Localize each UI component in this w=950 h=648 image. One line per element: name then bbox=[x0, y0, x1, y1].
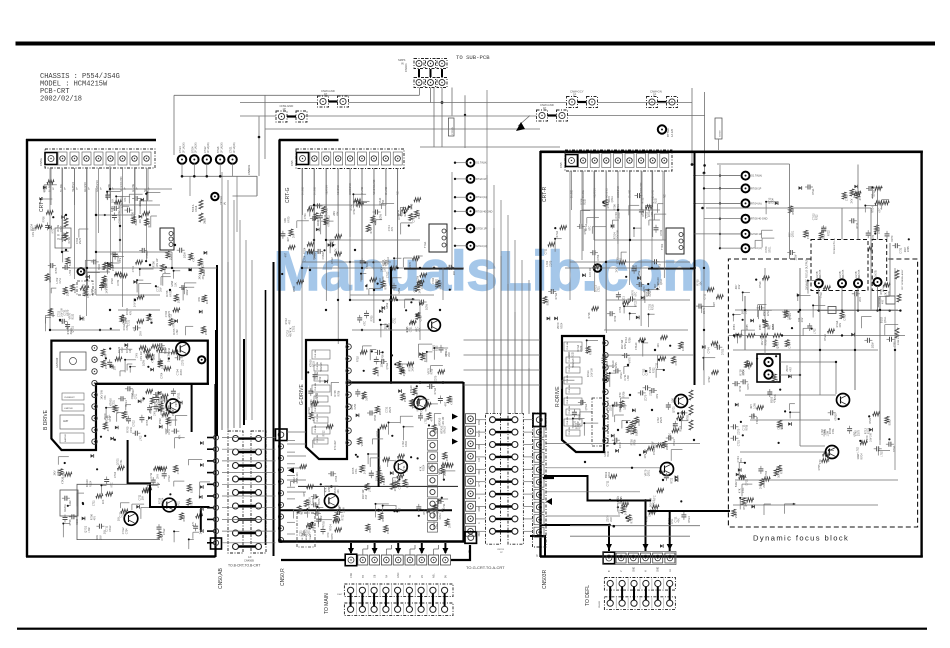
dashed box R-DRIVE sub bbox=[592, 398, 608, 446]
svg-text:C704: C704 bbox=[878, 227, 881, 234]
wire top bus y102 bbox=[240, 102, 318, 104]
wire B thick1 bbox=[96, 383, 209, 385]
svg-text:D7G1: D7G1 bbox=[125, 400, 128, 407]
svg-text:C711: C711 bbox=[646, 369, 649, 375]
block R-DRIVE outline bbox=[562, 336, 604, 452]
svg-text:1A(75): 1A(75) bbox=[875, 270, 878, 277]
svg-text:ZD70: ZD70 bbox=[666, 443, 669, 450]
svg-text:1/2W: 1/2W bbox=[753, 402, 756, 408]
transistor Q7G4 bbox=[394, 460, 407, 473]
svg-text:R7G4: R7G4 bbox=[555, 292, 558, 299]
component group (resistors capacitors diodes) left mid bbox=[101, 281, 105, 288]
svg-text:R712: R712 bbox=[743, 503, 746, 510]
svg-text:C731: C731 bbox=[126, 324, 129, 330]
svg-text:1A 125: 1A 125 bbox=[670, 128, 674, 137]
svg-text:Q7G1: Q7G1 bbox=[672, 406, 675, 413]
svg-text:C7G2: C7G2 bbox=[386, 271, 389, 278]
svg-text:R706: R706 bbox=[366, 283, 369, 290]
svg-text:VR7G4: VR7G4 bbox=[219, 196, 223, 205]
block dynamic focus dashed bbox=[728, 259, 917, 527]
svg-text:R706: R706 bbox=[337, 390, 340, 396]
svg-text:C711: C711 bbox=[169, 314, 172, 320]
svg-text:R722: R722 bbox=[353, 208, 356, 215]
crt socket pads right column bbox=[742, 172, 750, 180]
svg-text:C704: C704 bbox=[708, 347, 711, 354]
svg-text:C704: C704 bbox=[597, 254, 600, 261]
svg-text:R718: R718 bbox=[652, 304, 655, 310]
svg-text:R706: R706 bbox=[55, 267, 58, 274]
svg-text:CURRENT: CURRENT bbox=[64, 397, 75, 399]
svg-text:NC: NC bbox=[663, 194, 666, 198]
svg-text:CN5G: CN5G bbox=[39, 158, 43, 166]
connector row TO MAIN top bbox=[345, 554, 357, 566]
resistor R7G9 vertical bbox=[199, 213, 203, 222]
svg-text:D7G1: D7G1 bbox=[57, 468, 60, 475]
svg-text:4R7: 4R7 bbox=[365, 494, 368, 499]
wires inter mid-right horizontals bbox=[464, 339, 541, 341]
svg-text:B LINE: B LINE bbox=[582, 190, 585, 198]
connector CN5G2 socket row bbox=[296, 149, 404, 169]
svg-text:2KV: 2KV bbox=[610, 517, 613, 522]
wire thick mid y510 bbox=[281, 509, 453, 511]
wire mid y486 bbox=[298, 485, 458, 487]
connector CN5GAB double column bbox=[228, 431, 243, 553]
svg-text:1/2W: 1/2W bbox=[158, 400, 161, 406]
svg-text:Q7G1: Q7G1 bbox=[777, 342, 780, 349]
svg-text:R705: R705 bbox=[907, 246, 910, 252]
svg-text:R712: R712 bbox=[318, 215, 321, 222]
transistor Q7B1 bbox=[176, 342, 190, 356]
node dots right top bbox=[691, 163, 694, 166]
svg-text:KTC: KTC bbox=[111, 482, 114, 487]
svg-text:10K: 10K bbox=[141, 496, 144, 501]
svg-text:Q7G1: Q7G1 bbox=[72, 325, 75, 332]
svg-text:L702: L702 bbox=[157, 482, 160, 488]
svg-text:CRT SCREEN ASSY: CRT SCREEN ASSY bbox=[901, 269, 904, 290]
svg-text:4R7: 4R7 bbox=[789, 367, 792, 372]
svg-text:D7G1: D7G1 bbox=[653, 448, 656, 455]
svg-text:2KV: 2KV bbox=[156, 474, 159, 479]
svg-text:R706: R706 bbox=[628, 337, 631, 343]
svg-text:KTC1027: KTC1027 bbox=[335, 440, 337, 450]
svg-text:1/2W: 1/2W bbox=[184, 252, 187, 258]
svg-text:R7G4: R7G4 bbox=[556, 230, 559, 237]
svg-text:VR70: VR70 bbox=[312, 524, 315, 531]
svg-text:1KV 1W: 1KV 1W bbox=[869, 432, 872, 442]
connector CN-MAIN double row bbox=[344, 584, 453, 597]
svg-text:47K: 47K bbox=[124, 197, 127, 202]
svg-text:ABL: ABL bbox=[433, 573, 436, 578]
svg-text:KA78R09: KA78R09 bbox=[56, 357, 59, 368]
svg-text:KR7075: KR7075 bbox=[843, 269, 845, 278]
svg-text:2KV: 2KV bbox=[801, 317, 804, 322]
svg-text:KTC: KTC bbox=[879, 208, 882, 213]
pad D7B0 bbox=[198, 356, 205, 363]
component group (resistors capacitors diodes) middle lower d bbox=[379, 513, 383, 520]
svg-text:ZD70: ZD70 bbox=[382, 276, 385, 283]
svg-text:1KV 1W: 1KV 1W bbox=[442, 416, 445, 426]
svg-text:KR7075: KR7075 bbox=[820, 269, 822, 278]
component group (resistors capacitors diodes) left mid3 bbox=[150, 322, 152, 324]
svg-text:C7G2: C7G2 bbox=[204, 146, 207, 153]
wires pads right horizontals bbox=[695, 175, 742, 177]
wire focus verticals bbox=[744, 296, 746, 350]
svg-text:C731: C731 bbox=[117, 279, 120, 286]
wires thick defl drops bbox=[608, 525, 610, 551]
svg-text:R718: R718 bbox=[406, 482, 409, 489]
wire vert x465 bbox=[464, 95, 466, 148]
svg-text:GND: GND bbox=[658, 567, 660, 572]
svg-text:CN5: CN5 bbox=[559, 162, 563, 168]
component group (resistors capacitors diodes) middle lower a bbox=[394, 363, 396, 365]
block G-DRIVE outline bbox=[306, 340, 347, 459]
svg-text:C711: C711 bbox=[544, 248, 547, 254]
svg-text:1SET: 1SET bbox=[337, 594, 343, 596]
svg-text:R7G4: R7G4 bbox=[560, 322, 563, 329]
svg-text:C711: C711 bbox=[139, 494, 142, 500]
svg-text:1/2W: 1/2W bbox=[438, 468, 441, 474]
svg-text:R786: R786 bbox=[760, 324, 762, 330]
svg-text:R712: R712 bbox=[739, 385, 742, 392]
svg-text:1KV 1W: 1KV 1W bbox=[168, 352, 171, 362]
wire vert x452 bbox=[451, 88, 453, 116]
wire thick D bbox=[530, 536, 545, 556]
svg-text:CUR LIM: CUR LIM bbox=[317, 434, 319, 443]
svg-text:Q7G1: Q7G1 bbox=[884, 316, 887, 323]
svg-text:B102: B102 bbox=[135, 219, 138, 225]
svg-text:2KV: 2KV bbox=[142, 396, 145, 401]
pad D7R0 bbox=[594, 264, 602, 272]
component group (resistors capacitors diodes) left upper bbox=[129, 193, 142, 195]
crt socket pads G1-G5 bbox=[178, 155, 187, 164]
svg-text:1KV 1W: 1KV 1W bbox=[363, 464, 366, 474]
svg-text:1P 1A(1K): 1P 1A(1K) bbox=[221, 142, 224, 153]
connector dashed box sub bbox=[872, 240, 887, 291]
svg-text:G7G4 (A): G7G4 (A) bbox=[476, 245, 487, 248]
connector CN5R socket row bbox=[565, 150, 672, 171]
svg-text:C731: C731 bbox=[410, 326, 413, 332]
svg-text:1P: 1P bbox=[543, 106, 546, 110]
svg-text:47K: 47K bbox=[774, 398, 777, 403]
svg-text:CUR LIM: CUR LIM bbox=[315, 382, 317, 391]
svg-text:47K: 47K bbox=[150, 318, 153, 323]
svg-text:Q7G1: Q7G1 bbox=[386, 362, 389, 369]
svg-text:R-DRIVE: R-DRIVE bbox=[555, 386, 561, 407]
svg-text:KTA10: KTA10 bbox=[322, 251, 325, 259]
svg-text:ZD70: ZD70 bbox=[609, 404, 612, 411]
svg-text:R722: R722 bbox=[423, 508, 426, 515]
svg-text:ZD70: ZD70 bbox=[858, 430, 861, 437]
svg-text:9V: 9V bbox=[444, 575, 447, 578]
wire pads loop bbox=[173, 95, 175, 155]
svg-text:2KV: 2KV bbox=[448, 352, 451, 357]
svg-text:ZD70: ZD70 bbox=[618, 212, 621, 219]
svg-text:2KV: 2KV bbox=[292, 233, 295, 238]
svg-text:ZD70: ZD70 bbox=[434, 375, 437, 382]
svg-text:1/2W: 1/2W bbox=[52, 311, 55, 317]
svg-text:VR70: VR70 bbox=[629, 357, 632, 364]
svg-text:R705: R705 bbox=[615, 362, 618, 368]
svg-text:R706: R706 bbox=[634, 439, 637, 445]
svg-text:Q7G1: Q7G1 bbox=[660, 278, 663, 285]
svg-text:B102: B102 bbox=[888, 419, 891, 425]
svg-text:R718: R718 bbox=[405, 441, 408, 447]
svg-text:R785: R785 bbox=[747, 324, 749, 330]
svg-text:1/2W: 1/2W bbox=[380, 214, 383, 220]
svg-text:GND: GND bbox=[479, 506, 481, 511]
svg-text:1KV 1W: 1KV 1W bbox=[106, 284, 109, 294]
svg-text:C7G4: C7G4 bbox=[179, 146, 182, 153]
svg-text:C731: C731 bbox=[657, 282, 660, 288]
component group (resistors capacitors diodes) middle y300 bbox=[382, 300, 384, 302]
connector pair CN-A bbox=[647, 97, 658, 108]
svg-text:D7G1: D7G1 bbox=[768, 246, 771, 253]
svg-text:ZD70: ZD70 bbox=[318, 498, 321, 505]
svg-text:1KV 1W: 1KV 1W bbox=[140, 351, 143, 361]
svg-text:2KV: 2KV bbox=[140, 331, 143, 336]
svg-text:G7G8 1P: G7G8 1P bbox=[751, 233, 762, 236]
svg-text:ZD70: ZD70 bbox=[202, 261, 205, 268]
svg-text:ZD70: ZD70 bbox=[74, 287, 77, 294]
svg-text:CUR LIM: CUR LIM bbox=[567, 416, 569, 425]
svg-text:R7G4: R7G4 bbox=[743, 369, 746, 376]
wires cn503 horizontals bbox=[476, 419, 486, 421]
svg-text:C731: C731 bbox=[844, 314, 847, 321]
svg-text:B102: B102 bbox=[98, 263, 101, 269]
svg-text:R7G4 (A): R7G4 (A) bbox=[751, 202, 762, 205]
svg-text:1KV 1W: 1KV 1W bbox=[156, 258, 159, 268]
wires focus box feeds up bbox=[841, 208, 843, 240]
wire thick B bbox=[540, 524, 610, 526]
svg-text:CN456B: CN456B bbox=[244, 559, 254, 563]
transistor Q7R1 bbox=[675, 395, 688, 408]
svg-text:C711: C711 bbox=[443, 503, 446, 509]
svg-text:1KV 1W: 1KV 1W bbox=[589, 267, 592, 277]
svg-text:R705: R705 bbox=[323, 521, 326, 528]
svg-text:10K: 10K bbox=[657, 343, 660, 348]
wire sub-pcb down 1 bbox=[430, 88, 432, 103]
component group (resistors capacitors diodes) right upper a bbox=[611, 224, 614, 228]
wire pads to bus bbox=[181, 163, 183, 176]
wires cn503 stubs bbox=[523, 419, 533, 421]
pad BT7G0 bbox=[658, 125, 666, 133]
svg-text:C704: C704 bbox=[125, 528, 128, 534]
svg-text:1KV 1W: 1KV 1W bbox=[394, 482, 397, 492]
connector dashed box focus pack bbox=[811, 240, 868, 291]
svg-text:B102: B102 bbox=[69, 500, 72, 506]
svg-text:B102: B102 bbox=[655, 197, 658, 203]
svg-text:ZD70: ZD70 bbox=[180, 369, 183, 376]
svg-text:VR70: VR70 bbox=[747, 383, 750, 390]
svg-text:47K: 47K bbox=[413, 404, 416, 409]
svg-text:X.R: X.R bbox=[479, 458, 481, 462]
node dots mid bus382 bbox=[390, 381, 393, 384]
svg-text:1M(B): 1M(B) bbox=[205, 218, 207, 224]
connector CNW-GCY pair bbox=[567, 97, 578, 108]
svg-text:R7G4: R7G4 bbox=[824, 334, 827, 341]
svg-text:R705: R705 bbox=[308, 502, 311, 509]
svg-text:ZD70: ZD70 bbox=[763, 481, 766, 488]
node dots mid bus bbox=[390, 267, 393, 270]
svg-text:KTC: KTC bbox=[854, 432, 857, 437]
svg-text:47K: 47K bbox=[431, 417, 434, 422]
node dots left block bbox=[95, 214, 97, 216]
svg-text:C711: C711 bbox=[107, 414, 110, 420]
wire TO MAIN left thick bbox=[281, 559, 345, 561]
svg-text:4R7: 4R7 bbox=[753, 412, 756, 417]
component group (resistors capacitors diodes) right mid a bbox=[605, 373, 609, 380]
svg-text:R705: R705 bbox=[371, 315, 374, 322]
svg-text:R712: R712 bbox=[121, 347, 124, 353]
svg-text:L702: L702 bbox=[88, 527, 91, 533]
svg-text:C731: C731 bbox=[598, 286, 601, 292]
svg-text:1/2W: 1/2W bbox=[386, 302, 389, 308]
svg-text:R7G4: R7G4 bbox=[369, 526, 372, 533]
svg-text:ZD70: ZD70 bbox=[182, 359, 185, 366]
svg-text:R706: R706 bbox=[590, 349, 593, 356]
svg-text:R706: R706 bbox=[69, 519, 72, 526]
svg-text:CN6: CN6 bbox=[350, 573, 353, 578]
svg-text:G: G bbox=[479, 497, 481, 499]
svg-text:R7G4: R7G4 bbox=[607, 201, 610, 208]
component group (resistors capacitors diodes) middle watermark row bbox=[365, 285, 367, 287]
svg-text:4R7: 4R7 bbox=[285, 252, 288, 257]
svg-text:R706: R706 bbox=[293, 286, 296, 293]
svg-text:L702: L702 bbox=[369, 486, 372, 492]
svg-text:Q7G1: Q7G1 bbox=[308, 528, 311, 535]
svg-text:10K: 10K bbox=[117, 516, 120, 521]
svg-text:1P: 1P bbox=[283, 107, 286, 111]
svg-text:TDA6120: TDA6120 bbox=[320, 362, 323, 372]
svg-text:R705: R705 bbox=[746, 424, 749, 430]
transistor Q8F2 bbox=[826, 446, 839, 459]
svg-text:1/2W: 1/2W bbox=[426, 304, 429, 310]
svg-text:ZD70: ZD70 bbox=[703, 307, 706, 314]
svg-text:C711: C711 bbox=[92, 500, 95, 506]
svg-text:R7G8 1P: R7G8 1P bbox=[751, 187, 762, 190]
svg-text:R706: R706 bbox=[781, 468, 784, 475]
svg-text:KTC: KTC bbox=[635, 292, 638, 297]
svg-text:CRT-R: CRT-R bbox=[542, 186, 548, 202]
svg-text:ZD70: ZD70 bbox=[389, 406, 392, 413]
svg-text:4R7: 4R7 bbox=[398, 507, 401, 512]
svg-text:4R7: 4R7 bbox=[105, 353, 108, 358]
svg-text:C7G2: C7G2 bbox=[109, 525, 112, 532]
svg-text:4R7: 4R7 bbox=[287, 237, 290, 242]
svg-text:R7G4: R7G4 bbox=[759, 281, 762, 288]
svg-text:4R7: 4R7 bbox=[713, 302, 716, 307]
svg-text:1KV 1W: 1KV 1W bbox=[625, 505, 628, 515]
transistor Q7G5 bbox=[324, 494, 338, 508]
pins G-DRIVE column bbox=[346, 344, 351, 349]
svg-text:TDA6120: TDA6120 bbox=[572, 358, 575, 368]
svg-text:10K: 10K bbox=[102, 499, 105, 504]
svg-text:C7G2: C7G2 bbox=[178, 400, 181, 407]
svg-text:TO.G-CRT.TO.A-CRT: TO.G-CRT.TO.A-CRT bbox=[466, 565, 505, 570]
svg-text:7G1: 7G1 bbox=[57, 237, 62, 241]
svg-text:KTA10: KTA10 bbox=[132, 389, 135, 397]
svg-text:2KV: 2KV bbox=[859, 297, 862, 302]
svg-text:C731: C731 bbox=[132, 266, 135, 273]
svg-text:R7G4: R7G4 bbox=[434, 387, 437, 394]
svg-text:KTA10: KTA10 bbox=[146, 250, 149, 258]
svg-text:2KV: 2KV bbox=[851, 198, 854, 203]
boxed component dashdot bbox=[77, 281, 93, 295]
svg-text:C0709: C0709 bbox=[720, 130, 722, 137]
connector row TO DEFL top bbox=[603, 552, 615, 564]
svg-text:GND: GND bbox=[633, 567, 635, 572]
svg-text:GND: GND bbox=[397, 572, 400, 578]
svg-text:C731: C731 bbox=[394, 317, 397, 323]
wire B thick2 bbox=[191, 384, 193, 432]
svg-text:R722: R722 bbox=[170, 420, 173, 427]
svg-text:SGND: SGND bbox=[479, 430, 481, 437]
transistor Q7R2 bbox=[661, 463, 674, 476]
svg-text:C711: C711 bbox=[322, 207, 325, 213]
svg-text:L702: L702 bbox=[857, 447, 860, 453]
svg-text:47K: 47K bbox=[740, 458, 743, 463]
svg-text:Dynamic focus block: Dynamic focus block bbox=[753, 534, 849, 543]
svg-text:C7G2: C7G2 bbox=[293, 325, 296, 332]
svg-text:Q7G1: Q7G1 bbox=[648, 469, 651, 476]
svg-text:NC GROUND: NC GROUND bbox=[373, 179, 376, 195]
svg-text:R705: R705 bbox=[116, 408, 119, 415]
svg-text:2KV: 2KV bbox=[656, 393, 659, 398]
svg-text:1/2W: 1/2W bbox=[111, 206, 114, 212]
resistor column left bbox=[64, 218, 68, 227]
svg-text:GG/BGND: GG/BGND bbox=[617, 186, 620, 198]
svg-text:10K: 10K bbox=[375, 476, 378, 481]
svg-text:47K: 47K bbox=[107, 427, 110, 432]
wires middle block web bbox=[301, 168, 303, 380]
svg-text:R722: R722 bbox=[341, 514, 344, 521]
wire vert x434 bbox=[433, 88, 435, 148]
svg-text:KA2500: KA2500 bbox=[64, 433, 67, 442]
svg-text:B102: B102 bbox=[571, 351, 574, 357]
svg-text:KTC: KTC bbox=[364, 321, 367, 326]
svg-text:R7G4: R7G4 bbox=[871, 206, 874, 213]
svg-text:R712: R712 bbox=[620, 257, 623, 263]
component group (resistors capacitors diodes) focus d bbox=[739, 475, 746, 479]
wires colB to middle bbox=[287, 431, 306, 433]
svg-text:B102: B102 bbox=[191, 487, 194, 493]
svg-text:ZD70: ZD70 bbox=[643, 286, 646, 293]
wire focus pack out bbox=[780, 361, 836, 363]
svg-text:C7G1: C7G1 bbox=[230, 146, 233, 153]
svg-text:47K: 47K bbox=[391, 227, 394, 232]
svg-text:1/2W: 1/2W bbox=[577, 421, 580, 427]
svg-text:KTC: KTC bbox=[653, 495, 656, 500]
svg-text:ZD70: ZD70 bbox=[444, 469, 447, 476]
svg-text:SMPS: SMPS bbox=[398, 58, 406, 62]
wires right bus verticals bbox=[486, 200, 488, 414]
svg-text:C704: C704 bbox=[382, 199, 385, 205]
svg-text:R722: R722 bbox=[670, 477, 673, 484]
ic box B2 bbox=[62, 393, 84, 400]
connector CN601 TO SUB-PCB bbox=[414, 59, 424, 69]
svg-text:R706: R706 bbox=[328, 486, 331, 492]
wires right block web bbox=[569, 171, 571, 300]
svg-text:KTA10: KTA10 bbox=[383, 477, 386, 485]
component group (resistors capacitors diodes) middle upper a bbox=[357, 202, 364, 206]
svg-text:C731: C731 bbox=[832, 428, 835, 434]
svg-text:D7G1: D7G1 bbox=[418, 212, 421, 219]
svg-text:ZD70: ZD70 bbox=[737, 428, 740, 435]
svg-text:KTA10: KTA10 bbox=[61, 476, 64, 484]
svg-text:DNF: DNF bbox=[479, 531, 481, 536]
svg-text:10K: 10K bbox=[453, 271, 456, 276]
svg-text:2KV: 2KV bbox=[412, 366, 415, 371]
